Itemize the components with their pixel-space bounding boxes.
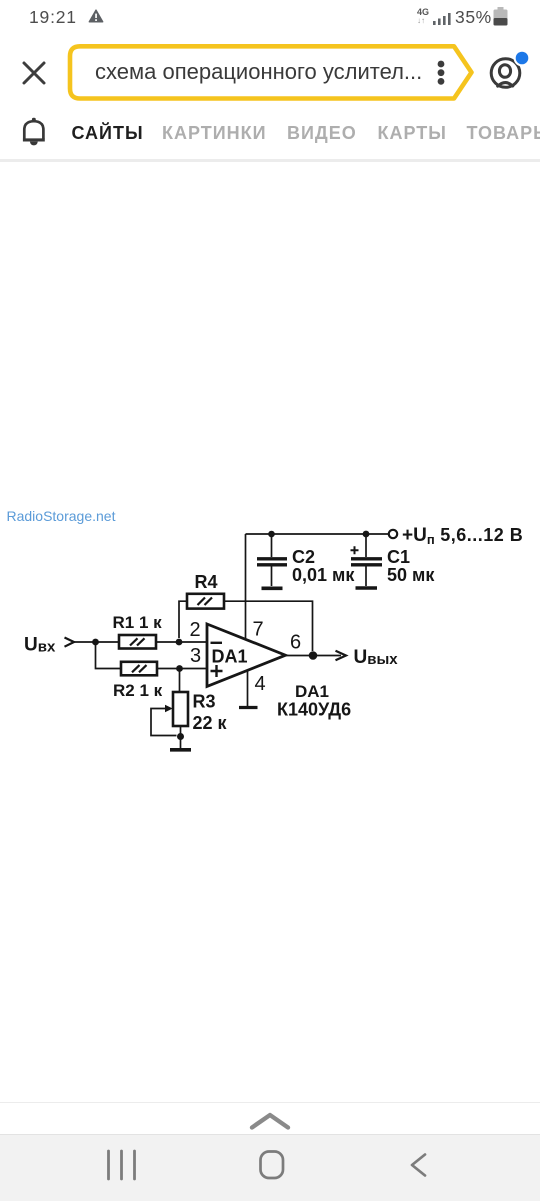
- wire positive supply rail: [246, 533, 389, 535]
- svg-text:2: 2: [190, 619, 201, 641]
- wire pin 4 down: [247, 671, 249, 706]
- resistor R3 (trimmer): [173, 692, 188, 726]
- wire input to split node: [73, 641, 96, 643]
- wire R2 to pin 3: [157, 668, 207, 670]
- wiper arrow of R3: [151, 705, 177, 736]
- wire R4 left lead down to inverting node: [179, 601, 187, 638]
- node inverting input / R4: [176, 639, 183, 646]
- svg-text:3: 3: [190, 645, 201, 667]
- capacitor C1 (electrolytic): [351, 534, 383, 586]
- wire R4 right lead (feedback) to output node: [224, 601, 313, 651]
- svg-text:DA1: DA1: [212, 647, 248, 667]
- svg-text:6: 6: [290, 632, 301, 654]
- wire R3 bottom to ground: [180, 726, 182, 748]
- svg-text:C2: C2: [292, 547, 315, 567]
- svg-text:К140УД6: К140УД6: [277, 700, 351, 720]
- ground below C1: [356, 586, 378, 590]
- svg-text:Uвых: Uвых: [354, 647, 399, 668]
- svg-text:22 к: 22 к: [193, 713, 228, 733]
- node output: [309, 651, 318, 660]
- node supply rail / C1: [363, 531, 370, 538]
- wire pin 7 to supply rail: [245, 534, 247, 640]
- ground below C2: [262, 586, 283, 590]
- svg-text:50 мк: 50 мк: [387, 565, 435, 585]
- wire split node down to R2: [96, 642, 122, 669]
- ground at pin 4: [239, 706, 258, 709]
- svg-text:C1: C1: [387, 547, 410, 567]
- wire output pin 6: [286, 655, 342, 657]
- svg-text:R4: R4: [195, 572, 218, 592]
- resistor R4: [187, 594, 224, 609]
- arrow Uvyx: [336, 651, 347, 661]
- node R3 bottom / wiper: [177, 733, 184, 740]
- node input split: [92, 639, 99, 646]
- label minus (inverting input mark): [211, 642, 223, 644]
- svg-text:+Uп 5,6...12 В: +Uп 5,6...12 В: [402, 525, 523, 547]
- node supply rail / C2: [268, 531, 275, 538]
- terminal +Un: [389, 530, 397, 538]
- label plus (non-inverting input mark): [211, 665, 223, 677]
- resistor R1: [119, 635, 156, 649]
- svg-text:DA1: DA1: [295, 682, 329, 701]
- node non-inverting input / R3: [176, 665, 183, 672]
- svg-text:4: 4: [255, 673, 266, 695]
- capacitor C2: [257, 534, 287, 586]
- wire R1 to pin 2: [156, 641, 207, 643]
- svg-text:Uвх: Uвх: [24, 635, 56, 656]
- resistor R2: [121, 662, 157, 676]
- svg-text:R2 1 к: R2 1 к: [113, 681, 163, 700]
- ground below R3: [170, 748, 191, 752]
- svg-text:0,01 мк: 0,01 мк: [292, 565, 355, 585]
- svg-text:7: 7: [253, 619, 264, 641]
- wire node down to R3: [179, 669, 181, 693]
- svg-text:R1 1 к: R1 1 к: [113, 613, 163, 632]
- svg-text:R3: R3: [193, 692, 216, 712]
- op-amp DA1: [207, 624, 286, 686]
- terminal arrow Uvx: [65, 638, 75, 647]
- wire split node to R1: [96, 641, 120, 643]
